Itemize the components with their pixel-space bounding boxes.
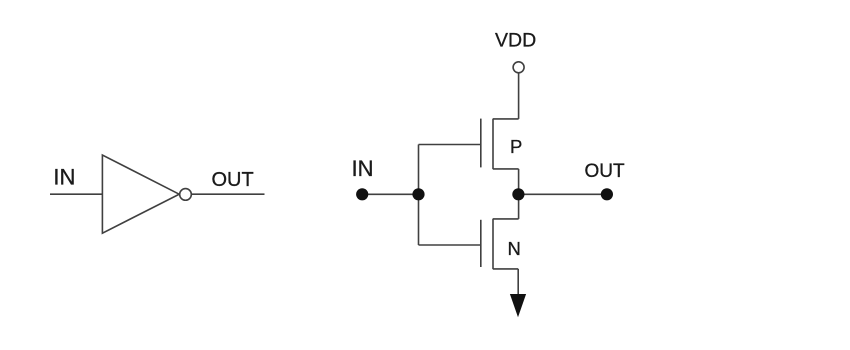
svg-text:P: P — [510, 136, 522, 157]
svg-text:IN: IN — [53, 165, 75, 190]
node OUT dot — [601, 188, 613, 200]
svg-text:N: N — [508, 238, 521, 259]
wire gate NMOS — [419, 244, 481, 246]
ground symbol — [510, 294, 526, 317]
node IN dot — [356, 188, 368, 200]
wire output node to OUT — [518, 193, 607, 195]
transistor P (PMOS) — [481, 119, 519, 170]
inverter U1 triangle — [102, 155, 179, 233]
inverter U1 bubble — [180, 189, 192, 201]
wire IN node to gate junction — [362, 193, 418, 195]
node output dot — [512, 188, 524, 200]
VDD supply circle — [513, 62, 524, 73]
svg-text:IN: IN — [352, 156, 374, 181]
transistor N (NMOS) — [481, 219, 519, 270]
wire gate PMOS — [419, 144, 481, 146]
node gate junction dot — [412, 188, 424, 200]
wire VDD to PMOS source — [518, 73, 520, 119]
svg-text:OUT: OUT — [585, 161, 626, 182]
wire IN (left inverter input) — [50, 193, 102, 195]
wire input junction vertical — [418, 145, 420, 246]
wire NMOS source to ground — [517, 269, 519, 294]
wire OUT (left inverter output) — [192, 193, 265, 195]
svg-text:OUT: OUT — [212, 169, 254, 191]
svg-text:VDD: VDD — [495, 30, 536, 52]
wire output node to NMOS drain — [518, 194, 520, 219]
wire PMOS drain to output node — [518, 169, 520, 194]
